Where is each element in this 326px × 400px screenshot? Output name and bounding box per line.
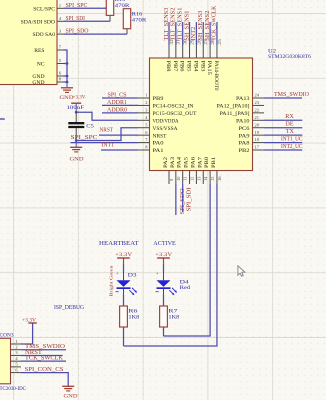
svg-text:PB2: PB2 xyxy=(239,148,250,154)
svg-text:2: 2 xyxy=(145,100,147,105)
pin 25 PA14-BOOT0 xyxy=(213,38,222,90)
mouse cursor xyxy=(238,266,245,276)
ground (ISP) xyxy=(62,386,77,399)
svg-text:R7: R7 xyxy=(168,308,177,314)
svg-text:SPI_CON_CS: SPI_CON_CS xyxy=(25,367,64,373)
junction (bus GND) xyxy=(66,75,69,84)
pin 29 PB5 xyxy=(186,38,195,71)
value TC2030-IDC xyxy=(0,386,26,392)
pin 1 SCL/SPC (sensor) xyxy=(33,3,63,13)
wire VSS net xyxy=(76,128,138,141)
section label ISP_DEBUG xyxy=(54,305,84,311)
pin 5 VSS/VSSA xyxy=(138,122,178,132)
svg-text:PB9: PB9 xyxy=(153,96,164,102)
pin 28 PB4 xyxy=(192,38,201,71)
svg-text:PA0: PA0 xyxy=(153,141,164,147)
svg-text:PA6: PA6 xyxy=(190,157,196,168)
svg-text:PA14-BOOT0: PA14-BOOT0 xyxy=(213,61,219,91)
svg-text:1: 1 xyxy=(59,3,61,8)
svg-text:ACTIVE: ACTIVE xyxy=(153,240,176,247)
svg-text:+3.3V: +3.3V xyxy=(155,252,172,258)
svg-text:PB5: PB5 xyxy=(186,61,192,72)
svg-text:ADDR0: ADDR0 xyxy=(107,107,127,113)
svg-text:PC14-OSC32_IN: PC14-OSC32_IN xyxy=(153,104,194,110)
wire SH_SENS3 xyxy=(202,22,204,45)
sensor IC body (partial, top-left) xyxy=(0,0,57,85)
wire +3.3V to D4 xyxy=(163,263,165,272)
pin 10 PA3 xyxy=(170,157,181,184)
wire INT2 xyxy=(195,22,197,45)
wire SPI_CS xyxy=(102,97,138,99)
net label TLT_SENS1 xyxy=(178,8,184,41)
wire TLT_SENS1 xyxy=(182,22,184,45)
pin 30 PB6 xyxy=(179,38,188,71)
svg-text:SH_SENS3: SH_SENS3 xyxy=(198,10,204,40)
junction (VDD node) xyxy=(75,111,78,114)
MCU U2 STM32G030K8T6 body xyxy=(150,58,253,171)
LED colour text xyxy=(109,265,114,297)
wire R6 bottom stem xyxy=(123,327,125,346)
pin 6 GND (sensor) xyxy=(32,71,63,81)
connector CON3 body xyxy=(0,338,11,384)
svg-text:ADDR1: ADDR1 xyxy=(107,100,127,106)
svg-text:PB0: PB0 xyxy=(204,157,210,168)
wire TMS_SWDIO xyxy=(264,97,302,99)
net label INT2_UC xyxy=(281,144,303,150)
svg-text:VSS/VSSA: VSS/VSSA xyxy=(153,126,178,132)
svg-text:PA12_[PA10]: PA12_[PA10] xyxy=(217,104,250,110)
svg-text:NC: NC xyxy=(37,62,45,68)
svg-text:STM32G030K8T6: STM32G030K8T6 xyxy=(268,54,311,60)
pin 19 PA9 xyxy=(239,130,265,140)
net label NRST (ISP) xyxy=(25,350,43,356)
net label INT1_UC xyxy=(281,136,303,142)
svg-text:Red: Red xyxy=(180,285,191,291)
svg-text:2: 2 xyxy=(15,345,17,350)
wire ADDR1 xyxy=(102,104,138,106)
wire TX xyxy=(264,134,302,136)
svg-text:TCK_SWCLK: TCK_SWCLK xyxy=(212,5,218,41)
wire TLT_SENS2 xyxy=(175,22,177,45)
wire +3.3V to D3 xyxy=(123,263,125,272)
svg-text:+: + xyxy=(116,272,119,277)
net label SPI_CS xyxy=(108,92,127,98)
svg-text:PA8: PA8 xyxy=(239,141,250,147)
pin 5 (CON3) xyxy=(11,362,22,367)
pin 4 (CON3) xyxy=(11,356,22,361)
svg-text:R6: R6 xyxy=(128,308,137,314)
pin 3 SDO SA0 (sensor) xyxy=(32,29,63,39)
net label DE xyxy=(286,122,294,128)
svg-text:PA1: PA1 xyxy=(153,148,164,154)
svg-text:Bright Green: Bright Green xyxy=(109,265,114,297)
svg-text:C5: C5 xyxy=(86,124,94,130)
svg-text:NRST: NRST xyxy=(153,133,168,139)
ground (below C5) xyxy=(70,141,84,163)
resistor R7 1K8 xyxy=(160,306,180,327)
svg-text:ISP_DEBUG: ISP_DEBUG xyxy=(54,305,84,311)
resistor R15 470R (partial) xyxy=(106,0,129,21)
svg-text:GND: GND xyxy=(64,393,78,399)
svg-text:100nF: 100nF xyxy=(67,105,85,111)
wire TCK_SWCLK xyxy=(216,22,218,45)
svg-text:INT1_UC: INT1_UC xyxy=(281,136,303,142)
svg-text:+3.3V: +3.3V xyxy=(73,95,86,101)
wire INT1 xyxy=(101,149,138,151)
svg-text:TLT_SENS3: TLT_SENS3 xyxy=(164,8,170,41)
wire +3.3V to pin1 xyxy=(21,323,33,344)
net label TMS_SWDIO (ISP) xyxy=(25,344,65,350)
pin 2 PC14-OSC32_IN xyxy=(138,100,194,110)
net label SPI_CON_CS xyxy=(25,367,64,373)
svg-text:PA4: PA4 xyxy=(177,157,183,168)
svg-text:PB4: PB4 xyxy=(192,61,198,72)
designator U2 xyxy=(268,49,276,55)
svg-text:PB6: PB6 xyxy=(179,61,185,72)
wire SPI_SDI xyxy=(64,20,111,22)
net label SPI_SDO xyxy=(180,189,186,215)
svg-text:SDO SA0: SDO SA0 xyxy=(32,32,55,38)
svg-text:11: 11 xyxy=(183,177,188,181)
pin 11 PA4 xyxy=(177,157,188,184)
svg-text:CON3: CON3 xyxy=(0,333,14,339)
svg-text:PC15-OSC32_OUT: PC15-OSC32_OUT xyxy=(153,111,198,117)
svg-text:PA7: PA7 xyxy=(197,157,203,168)
pin 27 PB3 xyxy=(199,38,208,71)
wire TCK_SWCLK (ISP) xyxy=(21,360,66,362)
pin 1 (CON3) xyxy=(11,339,22,344)
svg-text:TLT_SENS2: TLT_SENS2 xyxy=(171,8,177,41)
svg-text:12: 12 xyxy=(189,177,194,181)
net label INT1 xyxy=(102,143,115,149)
net label SH_SENS3 xyxy=(198,10,204,40)
svg-text:1K8: 1K8 xyxy=(168,314,179,320)
section label HEARTBEAT xyxy=(99,240,139,247)
svg-text:PA13: PA13 xyxy=(236,96,250,102)
wire DE xyxy=(264,127,302,129)
wire D4 to R7 xyxy=(163,295,165,307)
wire D3 to R6 xyxy=(123,295,125,307)
wire PB1 to R6 (HEARTBEAT LED) xyxy=(124,184,217,346)
capacitor C5 100nF xyxy=(67,105,95,140)
wire VDD net xyxy=(76,112,138,120)
svg-text:PB7: PB7 xyxy=(172,61,178,72)
pin 23 PA12_[PA10] xyxy=(217,100,265,110)
power +3.3V (ISP) xyxy=(22,318,37,324)
svg-text:1: 1 xyxy=(15,339,17,344)
net label SPI_SPC xyxy=(66,3,88,9)
pin 4 SDA/SDI SDO (sensor) xyxy=(21,16,64,26)
wire RX xyxy=(264,119,302,121)
wire INT1_UC xyxy=(264,142,302,144)
pin 22 PA11_[PA9] xyxy=(220,107,265,117)
pin 15 PB0 xyxy=(204,157,215,184)
pin 3 PC15-OSC32_OUT xyxy=(138,107,197,117)
pin 13 PA6 xyxy=(190,157,201,184)
pin 14 PA7 xyxy=(197,157,208,184)
svg-text:SPI_SPC: SPI_SPC xyxy=(71,135,98,141)
svg-text:D3: D3 xyxy=(128,272,137,278)
pin 16 PB1 xyxy=(211,157,222,184)
svg-text:NRST: NRST xyxy=(100,128,114,134)
svg-text:RX: RX xyxy=(285,114,294,120)
wire TLT_SENS3 xyxy=(168,22,170,45)
designator CON3 xyxy=(0,333,14,339)
svg-text:SPI_CS: SPI_CS xyxy=(108,92,127,98)
svg-text:470R: 470R xyxy=(132,17,147,23)
svg-text:1K8: 1K8 xyxy=(128,314,139,320)
net label TLT_SENS2 xyxy=(171,8,177,41)
svg-text:GND: GND xyxy=(60,95,74,101)
svg-text:INT2_UC: INT2_UC xyxy=(281,144,303,150)
pin 7 PA0 xyxy=(138,137,164,147)
pin 8 PA1 xyxy=(138,145,164,155)
value STM32G030K8T6 xyxy=(268,54,311,60)
svg-text:SPI_SPC: SPI_SPC xyxy=(66,3,88,9)
svg-text:HEARTBEAT: HEARTBEAT xyxy=(99,240,139,247)
net label INT2 xyxy=(191,26,197,40)
wire RES/NC/GND bus xyxy=(64,50,68,82)
svg-text:TLT_SENS1: TLT_SENS1 xyxy=(178,8,184,41)
pin 26 PA15 xyxy=(206,38,215,75)
wire SPI_SPC (to PA0) xyxy=(71,142,139,144)
svg-text:22: 22 xyxy=(255,107,259,112)
wire SPI_SPC xyxy=(64,7,107,9)
pin 3 (CON3) xyxy=(11,350,22,355)
LED colour text xyxy=(180,285,191,291)
wire NRST xyxy=(99,134,138,136)
pin 7 RES (sensor) xyxy=(34,45,63,55)
svg-text:VDD/VDDA: VDD/VDDA xyxy=(153,118,179,124)
net label SPI_SPC (PA0) xyxy=(71,135,98,141)
svg-text:470R: 470R xyxy=(115,3,130,9)
svg-text:GND: GND xyxy=(70,156,84,162)
svg-text:SPI_SDI: SPI_SDI xyxy=(66,16,86,22)
LED D4 xyxy=(156,272,190,295)
power +3.3V (at C5) xyxy=(71,95,86,113)
svg-text:PB3: PB3 xyxy=(199,61,205,72)
section label ACTIVE xyxy=(153,240,176,247)
pin 20 PC6 xyxy=(239,122,265,132)
net label SH_SENS2 xyxy=(205,10,211,40)
net label ADDR1 xyxy=(107,100,127,106)
net label TCK_SWCLK (ISP) xyxy=(25,356,64,362)
pin 1 PB9 xyxy=(138,93,164,103)
svg-text:PA5: PA5 xyxy=(184,157,190,168)
svg-text:RES: RES xyxy=(34,48,44,54)
pin 21 PA10 xyxy=(236,115,264,125)
power +3.3V (ACTIVE) xyxy=(155,252,172,263)
svg-text:PA9: PA9 xyxy=(239,133,250,139)
svg-text:INT2: INT2 xyxy=(191,26,197,40)
net label SPI_SDI xyxy=(187,187,193,211)
pin 6 NRST xyxy=(138,130,167,140)
wire SH_SENS2 xyxy=(209,22,211,45)
resistor R6 1K8 xyxy=(120,306,140,327)
wire fragment (left edge) xyxy=(0,118,5,120)
wire TMS_SWDIO (ISP) xyxy=(21,349,66,351)
pin 31 PB7 xyxy=(172,39,181,71)
svg-text:DE: DE xyxy=(286,122,294,128)
net label TLT_SENS3 xyxy=(164,8,170,41)
ground (sensor bus) xyxy=(60,82,74,101)
svg-text:SCL/SPC: SCL/SPC xyxy=(33,6,55,12)
svg-text:SDA/SDI SDO: SDA/SDI SDO xyxy=(21,19,55,25)
resistor R16 470R xyxy=(123,9,146,34)
net label TCK_SWCLK xyxy=(212,5,218,41)
svg-text:PB1: PB1 xyxy=(211,157,217,168)
svg-text:PA15: PA15 xyxy=(206,61,212,76)
junction (VSS node) xyxy=(75,139,78,142)
svg-text:TX: TX xyxy=(286,129,295,135)
LED D3 xyxy=(116,272,138,295)
svg-text:GND: GND xyxy=(32,80,44,86)
net label NRST xyxy=(100,128,114,134)
wire SPI_SDI (PA4) xyxy=(182,184,184,212)
wire R7 bottom stem xyxy=(163,327,165,336)
svg-text:SH_SENS2: SH_SENS2 xyxy=(205,10,211,40)
net label ADDR0 xyxy=(107,107,127,113)
net label RX xyxy=(285,114,294,120)
svg-text:INT1: INT1 xyxy=(102,143,115,149)
svg-text:+: + xyxy=(156,272,159,277)
net label SPI_SDO xyxy=(66,29,89,35)
svg-text:SPI_SDI: SPI_SDI xyxy=(187,187,193,211)
wire SPI_CON_CS to ground xyxy=(21,373,68,387)
svg-text:PC6: PC6 xyxy=(239,126,250,132)
svg-text:PB8: PB8 xyxy=(165,61,171,72)
svg-text:+3.3V: +3.3V xyxy=(115,252,132,258)
net label TMS_SWDIO xyxy=(274,92,309,98)
junction (bus NC) xyxy=(66,62,69,65)
pin 4 VDD/VDDA xyxy=(138,115,179,125)
svg-text:1: 1 xyxy=(145,93,147,98)
wire NRST (ISP) xyxy=(21,354,63,356)
svg-text:TCK_SWCLK: TCK_SWCLK xyxy=(25,356,64,362)
pin 2 (CON3) xyxy=(11,345,22,350)
svg-text:TMS_SWDIO: TMS_SWDIO xyxy=(274,92,309,98)
pin 5 NC (sensor) xyxy=(37,58,64,68)
pin 18 PA8 xyxy=(239,137,265,147)
wire INT2_UC xyxy=(264,149,302,151)
wire SH_SENS1 xyxy=(189,22,191,45)
pin 24 PA13 xyxy=(236,93,264,103)
wire ADDR0 xyxy=(102,112,138,114)
svg-text:PA3: PA3 xyxy=(170,157,176,168)
power +3.3V (HEARTBEAT) xyxy=(115,252,132,263)
pin 9 PA2 xyxy=(163,157,174,184)
pin 17 PB2 xyxy=(239,145,265,155)
svg-text:PA11_[PA9]: PA11_[PA9] xyxy=(220,111,250,117)
svg-text:SPI_SDO: SPI_SDO xyxy=(66,29,89,35)
pin 12 PA5 xyxy=(184,157,195,184)
pin 6 (CON3) xyxy=(11,367,22,372)
svg-text:PA2: PA2 xyxy=(163,157,169,168)
svg-text:21: 21 xyxy=(255,115,259,120)
wire SPI_SDO xyxy=(64,33,128,35)
net label TX xyxy=(286,129,295,135)
net label SPI_SDI xyxy=(66,16,86,22)
pin 8 GND (sensor) xyxy=(32,77,63,87)
svg-text:TC2030-IDC: TC2030-IDC xyxy=(0,386,26,392)
wire SPI_SDO (PA3) xyxy=(175,184,177,215)
pin 32 PB8 xyxy=(165,39,174,71)
svg-text:SH_SENS1: SH_SENS1 xyxy=(184,10,190,40)
wire PB0 to R7 (ACTIVE LED) xyxy=(164,184,211,336)
svg-text:PA10: PA10 xyxy=(236,118,250,124)
net label SH_SENS1 xyxy=(184,10,190,40)
